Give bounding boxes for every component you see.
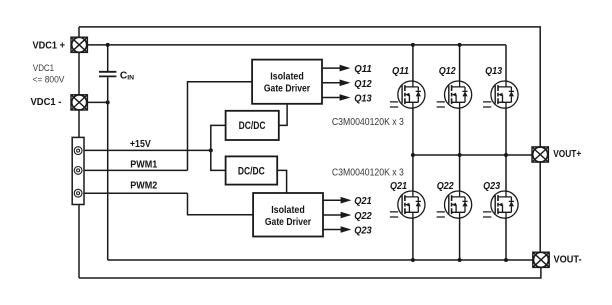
wire: Q23 source bbox=[505, 218, 507, 260]
junction: Q21 source on DC- bus bbox=[411, 258, 415, 262]
junction: CIN top on DC+ bus bbox=[106, 43, 110, 47]
junction: Q11 drain on DC+ bus bbox=[411, 43, 415, 47]
transistor Q21 bbox=[390, 191, 425, 218]
svg-text:Isolated: Isolated bbox=[270, 72, 304, 83]
svg-text:DC/DC: DC/DC bbox=[238, 165, 265, 177]
svg-text:Q13: Q13 bbox=[354, 94, 372, 105]
svg-text:Isolated: Isolated bbox=[271, 205, 305, 216]
svg-text:Q21: Q21 bbox=[390, 181, 407, 192]
svg-text:VOUT+: VOUT+ bbox=[553, 149, 581, 160]
svg-text:C3M0040120K x 3: C3M0040120K x 3 bbox=[332, 117, 404, 128]
svg-text:Q23: Q23 bbox=[354, 226, 372, 237]
svg-text:Q21: Q21 bbox=[354, 196, 372, 207]
svg-text:Q22: Q22 bbox=[354, 211, 372, 222]
transistor Q22 bbox=[437, 191, 472, 218]
wire: DC- source bus to VOUT- bbox=[108, 259, 533, 261]
wire: top rail from VDC1+ up and across to right column, down to VOUT+ bbox=[79, 27, 540, 147]
junction: Q11/Q21 switch node bbox=[411, 153, 415, 157]
wire: DC/DC 2 output to Isolated Gate Driver 2 bbox=[277, 170, 286, 193]
DC/DC converter 1 bbox=[226, 111, 279, 140]
wire: Q23 drain bbox=[505, 155, 507, 191]
junction: Q13/Q23 switch node bbox=[504, 153, 508, 157]
terminal VOUT- bbox=[533, 252, 549, 267]
svg-text:Q11: Q11 bbox=[354, 64, 372, 75]
wire: Q12 source to bus bbox=[459, 108, 461, 155]
wire: VDC1+ to VDC1- link bbox=[78, 52, 80, 94]
Isolated Gate Driver 1 bbox=[252, 60, 322, 104]
svg-text:+15V: +15V bbox=[130, 139, 151, 150]
wire: Q13 source to bus bbox=[505, 108, 507, 155]
wire: PWM1 from connector bbox=[84, 169, 188, 171]
svg-text:VDC1 -: VDC1 - bbox=[31, 97, 62, 108]
junction: Q23 source on DC- bus bbox=[504, 258, 508, 262]
svg-text:VOUT-: VOUT- bbox=[554, 255, 582, 266]
wire: right column between VOUT+ and VOUT- bbox=[539, 162, 541, 252]
svg-text:Q23: Q23 bbox=[483, 181, 500, 192]
junction: Q12 drain on DC+ bus bbox=[458, 43, 462, 47]
svg-text:DC/DC: DC/DC bbox=[239, 120, 266, 132]
wire: bottom outer rail to VOUT- bbox=[79, 267, 541, 278]
wire: +15V up leg into DC/DC 1 bbox=[211, 125, 226, 150]
wire: Q13 drain bbox=[505, 45, 507, 81]
junction: Q22 source on DC- bus bbox=[458, 258, 462, 262]
gate drive arrow to Q11 bbox=[322, 65, 350, 72]
gate drive arrow to Q13 bbox=[322, 94, 350, 101]
svg-text:C3M0040120K x 3: C3M0040120K x 3 bbox=[332, 168, 404, 179]
gate drive arrow to Q22 bbox=[323, 212, 351, 219]
svg-text:VDC1 +: VDC1 + bbox=[33, 41, 66, 52]
svg-text:PWM1: PWM1 bbox=[130, 160, 157, 171]
wire: +15V from connector to split node bbox=[84, 149, 211, 151]
wire: CIN top lead from DC+ bus bbox=[107, 45, 109, 71]
svg-text:Q12: Q12 bbox=[354, 79, 372, 90]
wire: VDC1- down to connector J1 bbox=[78, 110, 80, 137]
wire: VDC1- to CIN column bbox=[87, 101, 107, 103]
transistor Q12 bbox=[437, 81, 472, 108]
svg-text:PWM2: PWM2 bbox=[130, 181, 157, 192]
svg-text:VDC1: VDC1 bbox=[33, 62, 54, 73]
wire: +15V down leg into DC/DC 2 bbox=[211, 150, 226, 170]
junction: Q12/Q22 switch node bbox=[458, 153, 462, 157]
wire: Q11 source to bus bbox=[412, 108, 414, 155]
wire: switch-node bus to VOUT+ bbox=[413, 154, 532, 156]
gate drive arrow to Q12 bbox=[322, 80, 350, 87]
svg-text:Q13: Q13 bbox=[485, 66, 502, 77]
svg-text:<= 800V: <= 800V bbox=[33, 74, 66, 85]
wire: PWM2 drop into Isolated Gate Driver 2 bbox=[188, 193, 254, 215]
wire: connector J1 down to bottom outer rail bbox=[78, 205, 80, 279]
wire: Q11 drain bbox=[412, 45, 414, 81]
gate drive arrow to Q21 bbox=[323, 197, 351, 204]
DC/DC converter 2 bbox=[226, 156, 278, 184]
wire: Q21 drain bbox=[412, 155, 414, 191]
pin 1 (+15V) bbox=[74, 147, 82, 155]
wire: Q22 drain bbox=[459, 155, 461, 191]
gate drive arrow to Q23 bbox=[323, 226, 351, 233]
wire: PWM2 from connector bbox=[84, 192, 188, 194]
wire: VDC1+ terminal stub up to top rail bbox=[78, 27, 80, 37]
wire: PWM1 riser into Isolated Gate Driver 1 bbox=[188, 82, 253, 171]
terminal VDC1- bbox=[71, 95, 87, 110]
transistor Q23 bbox=[483, 191, 518, 218]
transistor Q13 bbox=[483, 81, 518, 108]
svg-text:Gate Driver: Gate Driver bbox=[265, 217, 311, 228]
svg-text:Q12: Q12 bbox=[439, 66, 456, 77]
wire: Q22 source bbox=[459, 218, 461, 260]
junction: VDC1- tap on CIN column bbox=[106, 100, 110, 104]
pin 3 (PWM2) bbox=[74, 189, 82, 197]
wire: DC/DC 1 output to Isolated Gate Driver 1 bbox=[279, 104, 287, 126]
svg-text:Q22: Q22 bbox=[437, 181, 454, 192]
svg-text:CIN: CIN bbox=[120, 70, 134, 81]
svg-text:Gate Driver: Gate Driver bbox=[264, 84, 310, 95]
connector J1 bbox=[72, 137, 84, 204]
wire: DC+ bus from VDC1+ to Q13 drain column bbox=[88, 44, 506, 46]
junction: +15V split node bbox=[209, 148, 213, 152]
transistor Q11 bbox=[390, 81, 425, 108]
wire: CIN bottom lead down to DC- bus bbox=[107, 77, 109, 260]
wire: Q12 drain bbox=[459, 45, 461, 81]
capacitor CIN bbox=[99, 72, 116, 77]
wire: Q21 source bbox=[412, 218, 414, 260]
terminal VOUT+ bbox=[532, 147, 548, 162]
svg-text:Q11: Q11 bbox=[392, 66, 409, 77]
pin 2 (PWM1) bbox=[74, 167, 82, 175]
Isolated Gate Driver 2 bbox=[253, 193, 323, 237]
terminal VDC1+ bbox=[71, 37, 87, 52]
